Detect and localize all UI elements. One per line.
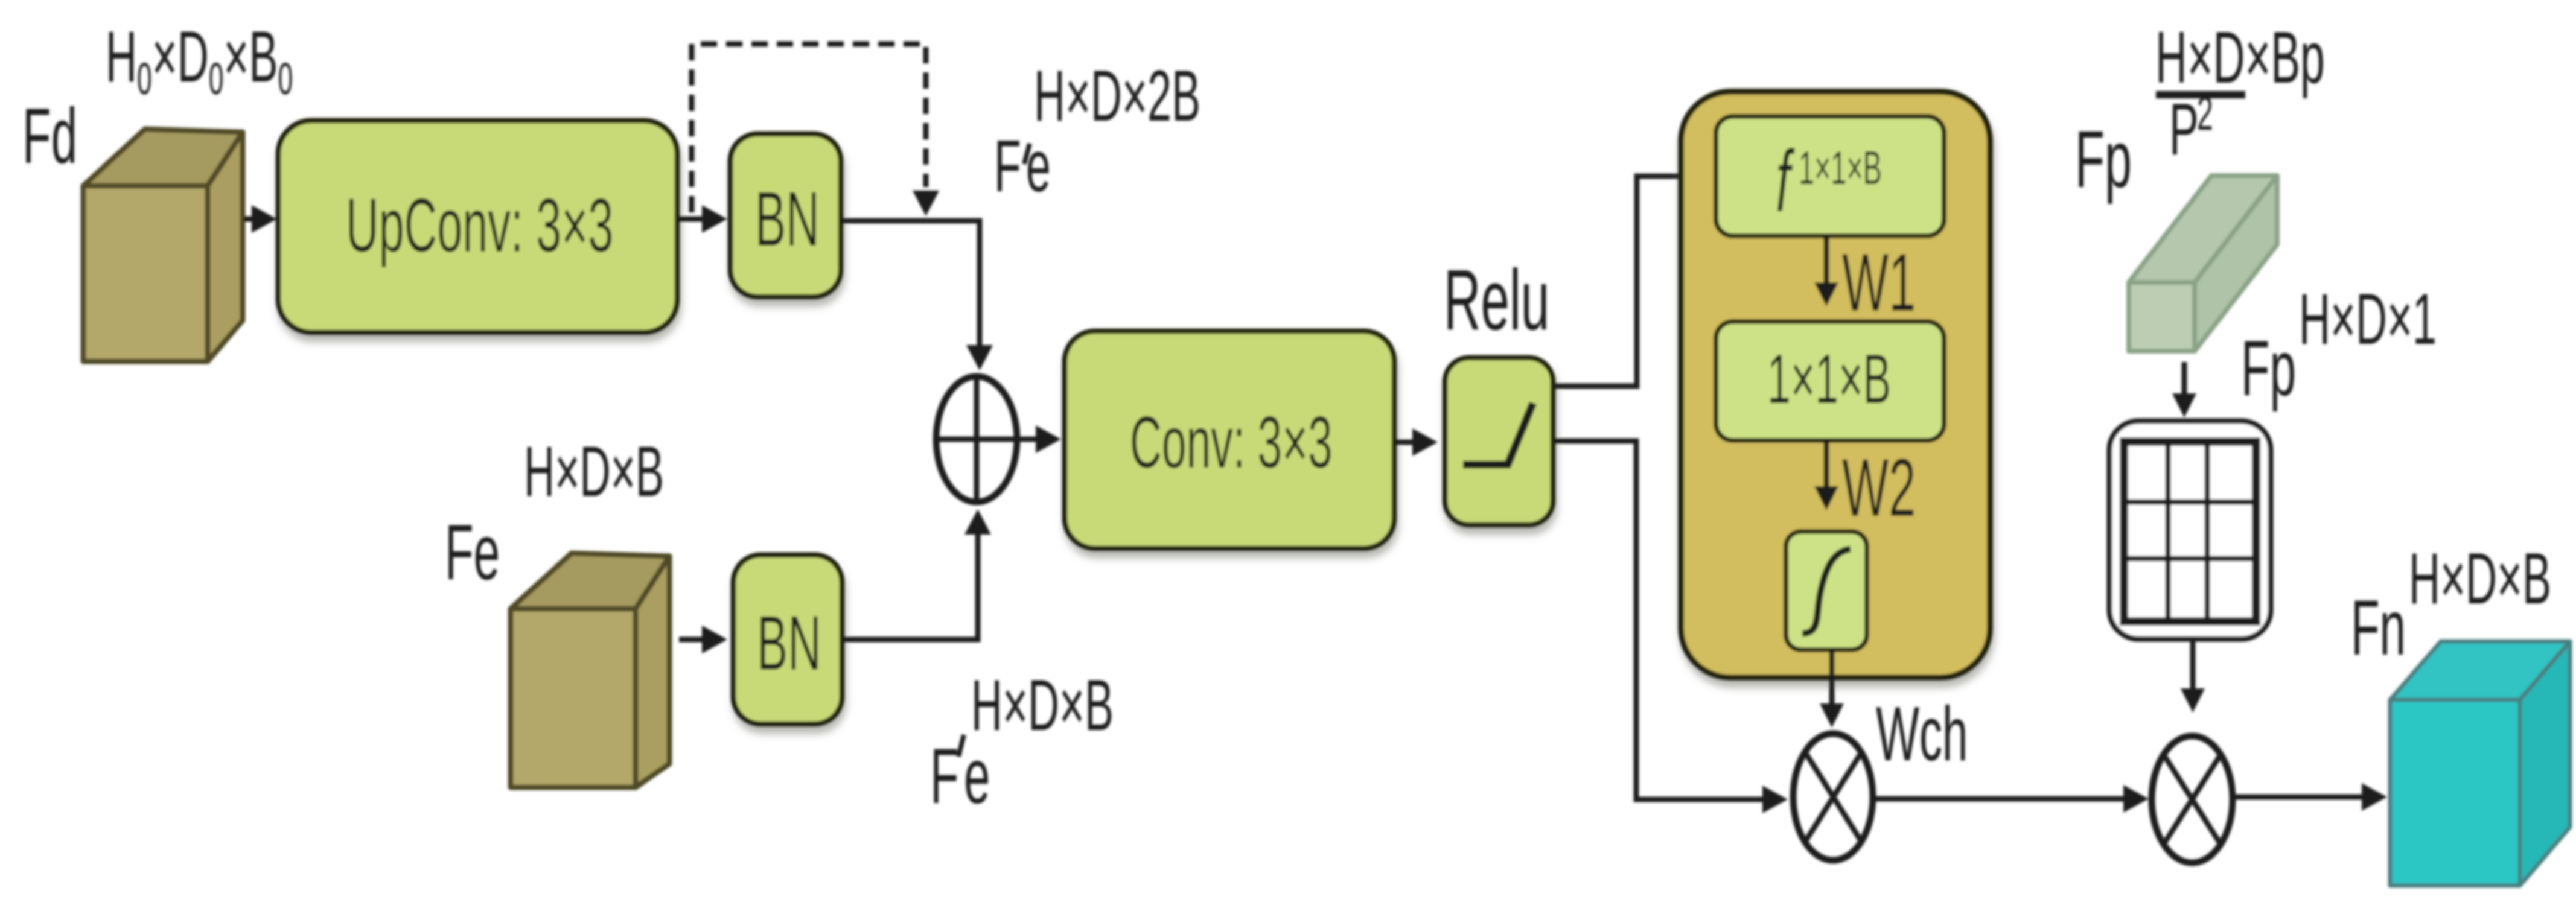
- svg-text:BN: BN: [757, 600, 821, 687]
- svg-text:1×1×B: 1×1×B: [1767, 340, 1891, 419]
- node multiply 2: [2152, 736, 2233, 863]
- svg-text:H×D×B: H×D×B: [971, 664, 1114, 746]
- label Fn: [2351, 583, 2406, 671]
- svg-text:Fe: Fe: [445, 508, 500, 596]
- label HxDxB over Fe: [524, 431, 664, 511]
- wire Relu bottom out to multiply node 1: [1553, 441, 1764, 799]
- wire BN1 to sum node: [841, 221, 980, 346]
- box BN1: [730, 134, 841, 297]
- dashed skip wire: [692, 44, 926, 212]
- sigmoid curve: [1802, 549, 1851, 633]
- label F'e upper: [994, 125, 1021, 208]
- label Fp second: [2241, 324, 2296, 412]
- node multiply 1: [1793, 734, 1873, 860]
- svg-text:H×D×1: H×D×1: [2299, 278, 2437, 360]
- box 1x1xB: [1716, 322, 1944, 440]
- label HxDxB right: [2409, 538, 2551, 619]
- svg-text:e: e: [964, 732, 990, 820]
- box BN2: [733, 555, 842, 724]
- svg-text:H×D×B: H×D×B: [2409, 538, 2551, 619]
- label Fp top: [2075, 115, 2132, 205]
- wire multiply2 to cube Fn: [2233, 795, 2363, 800]
- node sum circle: [936, 376, 1017, 502]
- label Fd: [22, 92, 77, 180]
- label W2: [1842, 441, 1916, 533]
- svg-text:H×D×Bp: H×D×Bp: [2155, 17, 2325, 99]
- svg-text:F: F: [994, 125, 1021, 208]
- wire sum to Conv: [1017, 425, 1061, 453]
- box Relu: [1445, 358, 1553, 525]
- label Fe: [445, 508, 500, 596]
- cube Fn: [2390, 641, 2570, 886]
- svg-text:Fd: Fd: [22, 92, 77, 180]
- box attention container: [1681, 92, 1990, 678]
- label Relu: [1444, 252, 1549, 348]
- svg-text:2: 2: [2197, 86, 2213, 140]
- svg-text:Conv: 3×3: Conv: 3×3: [1130, 402, 1333, 484]
- label HxDx2B: [1034, 55, 1200, 136]
- wire grid to multiply2: [2190, 639, 2196, 690]
- box UpConv: [278, 121, 677, 332]
- svg-text:W2: W2: [1842, 441, 1916, 533]
- label Wch: [1876, 691, 1968, 777]
- svg-text:H×D×B: H×D×B: [524, 431, 664, 511]
- grid box: [2109, 421, 2271, 639]
- box Conv: [1065, 331, 1394, 548]
- fraction bar: [2156, 91, 2245, 98]
- arrow W2: [1824, 440, 1829, 487]
- box f 1x1xB: [1716, 116, 1944, 236]
- cube Fd: [83, 129, 243, 361]
- arrow W1: [1824, 236, 1829, 284]
- wire sigmoid to multiply node 1: [1829, 650, 1835, 705]
- label HxDx1: [2299, 278, 2437, 360]
- svg-text:UpConv: 3×3: UpConv: 3×3: [346, 183, 613, 268]
- wire UpConv to BN1: [677, 205, 727, 233]
- svg-text:Fp: Fp: [2075, 115, 2132, 205]
- svg-text:W1: W1: [1842, 236, 1916, 328]
- wire BN2 to sum node: [842, 533, 978, 640]
- svg-text:H×D×2B: H×D×2B: [1034, 55, 1200, 136]
- svg-text:e: e: [1026, 125, 1051, 208]
- label P2: [2169, 89, 2199, 171]
- relu icon: [1463, 403, 1533, 465]
- wire Relu top out to attention block: [1553, 176, 1681, 386]
- wire multiply1 to multiply2: [1873, 796, 2125, 802]
- svg-text:BN: BN: [755, 176, 820, 262]
- wire Conv to Relu: [1394, 428, 1438, 456]
- label HxDxB lower middle: [971, 664, 1114, 746]
- wire cube Fe to BN2: [679, 626, 727, 653]
- label F'e lower: [930, 732, 959, 820]
- label H0xD0xB0: [106, 16, 293, 104]
- svg-text:F: F: [930, 732, 959, 820]
- svg-text:Wch: Wch: [1876, 691, 1968, 777]
- bar Fp prism: [2129, 176, 2277, 351]
- cube Fe: [511, 553, 669, 787]
- svg-text:Fn: Fn: [2351, 583, 2406, 671]
- svg-text:1×1×B: 1×1×B: [1799, 142, 1882, 194]
- label W1: [1842, 236, 1916, 328]
- svg-text:Fp: Fp: [2241, 324, 2296, 412]
- box sigmoid: [1786, 532, 1867, 650]
- svg-text:H0×D0×B0: H0×D0×B0: [106, 16, 293, 104]
- svg-text:Relu: Relu: [1444, 252, 1549, 348]
- wire cube Fd to UpConv: [244, 205, 277, 233]
- label HxDxBp fraction: [2155, 17, 2325, 99]
- svg-text:P: P: [2169, 89, 2199, 171]
- wire bar to grid: [2182, 362, 2187, 395]
